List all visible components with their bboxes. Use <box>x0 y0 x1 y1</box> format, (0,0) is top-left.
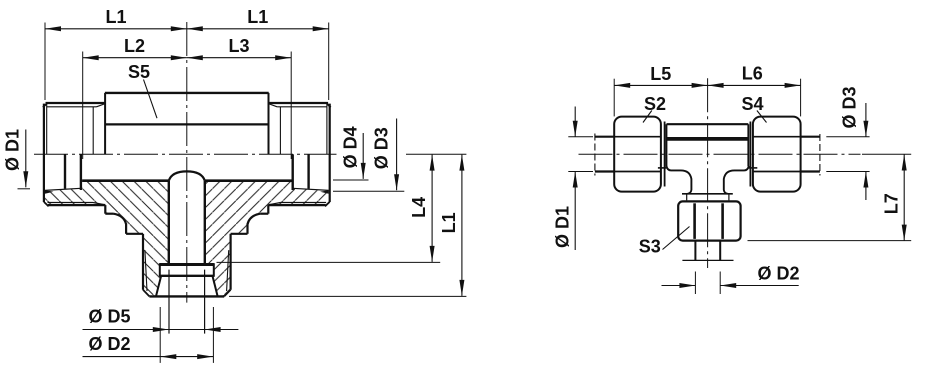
nut S3 left facet <box>693 203 696 239</box>
vertical bore wall left <box>168 181 170 264</box>
right stud thread crest bottom <box>268 204 325 206</box>
svg-text:L3: L3 <box>228 36 249 56</box>
flange step right vertical <box>267 205 269 214</box>
right tube break line <box>819 134 821 176</box>
standpipe washer top <box>682 193 733 195</box>
ferrule bottom edge <box>160 275 214 277</box>
left tube top wall <box>595 136 614 138</box>
svg-text:Ø D4: Ø D4 <box>340 126 360 168</box>
extension line L4 bottom <box>217 261 441 263</box>
left stud face inner edge <box>46 103 48 154</box>
dimension D1 line <box>25 130 27 188</box>
left port female thread line <box>45 188 81 190</box>
body ring right <box>749 122 751 187</box>
leader S3 <box>663 227 690 250</box>
tee body left edge <box>104 93 106 154</box>
left stud top chamfer <box>43 103 47 107</box>
left port countersink <box>45 190 54 194</box>
bore wall right segment <box>205 179 292 182</box>
left view vertical centreline <box>186 22 188 303</box>
ferrule top edge <box>160 263 214 266</box>
svg-text:Ø D3: Ø D3 <box>371 127 391 169</box>
svg-text:L1: L1 <box>439 212 459 233</box>
branch chamfer right <box>224 290 230 297</box>
tee body hex top edge <box>105 92 269 94</box>
left view horizontal centreline <box>34 153 337 155</box>
right port countersink <box>320 190 329 194</box>
extension line D3 <box>333 190 404 192</box>
svg-text:L5: L5 <box>650 64 671 84</box>
extension line L2 <box>82 52 84 160</box>
svg-text:Ø D5: Ø D5 <box>89 307 131 327</box>
branch bottom face <box>149 295 224 297</box>
branch stud left edge <box>142 234 144 290</box>
extension line D1 bottom right view <box>568 171 593 173</box>
standpipe washer left <box>686 194 688 201</box>
svg-text:Ø D1: Ø D1 <box>2 129 22 171</box>
right port female thread line <box>293 188 329 190</box>
right stud thread runout bottom <box>268 202 280 204</box>
dimension L3 <box>187 57 291 59</box>
right stud thread root top <box>277 106 327 108</box>
right stud thread root bottom <box>281 201 327 203</box>
extension line L6 right <box>800 79 802 117</box>
right stud thread runout top <box>268 104 277 107</box>
extension line D4 <box>333 179 369 181</box>
ferrule left edge <box>159 263 161 277</box>
step left horizontal <box>126 233 143 235</box>
right tube bottom wall <box>801 170 820 172</box>
section hatching left half <box>45 181 169 296</box>
left port cone shoulder edge <box>80 154 82 190</box>
left tube bottom wall <box>595 170 614 172</box>
extension line L1 bottom <box>229 295 466 297</box>
ogee fillet left <box>114 214 127 225</box>
tube wall right <box>204 270 206 334</box>
right stud bottom chamfer <box>325 202 330 206</box>
nut S4 outline <box>753 117 801 192</box>
svg-text:L7: L7 <box>881 193 901 214</box>
branch stud right edge <box>230 234 232 290</box>
dimension L1 right <box>187 28 329 30</box>
leader S2 <box>643 111 652 123</box>
standpipe washer right <box>728 194 730 201</box>
right stud thread end line <box>279 107 281 154</box>
extension line D2 left right view <box>694 272 696 295</box>
bottom tube left wall <box>694 241 696 261</box>
left stud thread root top <box>47 106 97 108</box>
dimension D3 line <box>396 119 398 191</box>
dimension L1 vertical line <box>461 155 463 296</box>
step right horizontal <box>231 233 248 235</box>
left port thread depth edge <box>64 154 66 189</box>
extension line D2 right right view <box>719 272 721 295</box>
body underside left <box>658 167 666 169</box>
right port cone shoulder edge <box>292 154 294 190</box>
left stud thread end line <box>92 107 94 154</box>
nut S2 outline <box>614 117 661 192</box>
nut S2 upper facet <box>614 136 660 138</box>
dimension D5 <box>83 329 239 331</box>
dimension D3 right view <box>865 103 867 137</box>
nut S3 outline <box>678 201 740 240</box>
step left vertical <box>125 224 127 234</box>
branch thread root right <box>227 250 229 291</box>
right tube top wall <box>801 136 820 138</box>
right port thread depth edge <box>307 154 309 189</box>
branch thread root left <box>145 250 147 291</box>
leader S4 <box>757 111 767 123</box>
flange step right horizontal <box>260 213 268 215</box>
left stud thread runout bottom <box>93 202 105 204</box>
flange step left vertical <box>104 205 106 214</box>
body right edge right view <box>747 124 749 166</box>
flange step left horizontal <box>105 213 113 215</box>
seat cone right <box>213 277 218 296</box>
leader S5 <box>144 80 158 119</box>
svg-text:L1: L1 <box>247 7 268 27</box>
right stud face outer edge <box>329 104 331 202</box>
dimension L4 line <box>431 155 433 262</box>
dimension L7 <box>903 155 905 241</box>
dimension L2 <box>83 57 187 59</box>
extension line D2 left <box>159 307 161 363</box>
extension line D3 bottom right view <box>826 171 869 173</box>
dimension L5 <box>614 84 707 86</box>
svg-text:L1: L1 <box>105 7 126 27</box>
nut S3 right facet <box>721 203 724 239</box>
seat cone left <box>156 277 161 296</box>
body hex band <box>667 137 748 141</box>
dimension D4 line <box>362 133 364 179</box>
vertical bore wall right <box>204 181 206 264</box>
left stud thread runout top <box>97 104 106 107</box>
step right vertical <box>246 224 248 234</box>
svg-text:L2: L2 <box>124 36 145 56</box>
left stud bottom chamfer <box>44 202 49 206</box>
svg-text:Ø D3: Ø D3 <box>839 86 859 128</box>
left stud face outer edge <box>43 104 45 202</box>
extension line centre axis right <box>406 153 466 155</box>
tee body right edge <box>268 93 270 154</box>
bottom tube right wall <box>719 241 721 261</box>
branch chamfer left <box>143 290 149 297</box>
extension line D1 top right view <box>568 136 593 138</box>
ogee fillet right <box>248 214 261 225</box>
body left edge right view <box>666 124 668 166</box>
svg-text:S3: S3 <box>639 237 661 257</box>
body top edge right view <box>667 123 749 125</box>
right stud top chamfer <box>326 103 330 107</box>
extension line L7 bottom <box>748 240 912 242</box>
right stud face inner edge <box>326 103 328 154</box>
nut S2 lower facet <box>614 171 660 173</box>
extension line stud right face <box>328 23 330 101</box>
drill dome <box>169 171 205 180</box>
left stud thread crest top <box>46 102 106 104</box>
svg-text:L4: L4 <box>409 197 429 218</box>
dimension L1 left <box>45 28 187 30</box>
svg-text:S5: S5 <box>128 62 150 82</box>
body ring left <box>664 122 666 187</box>
right view horizontal centreline <box>579 153 861 155</box>
nut S4 upper facet <box>753 136 800 138</box>
extension line D2 right <box>212 307 214 363</box>
extension line D3 top right view <box>826 136 869 138</box>
right stud thread crest top <box>268 102 328 104</box>
body underside right <box>749 167 757 169</box>
right view vertical centreline <box>707 78 709 268</box>
left stud thread crest bottom <box>48 204 105 206</box>
extension line D1 <box>18 188 31 190</box>
bottom tube end line <box>682 259 733 261</box>
left stud thread root bottom <box>48 201 94 203</box>
tee body hex facet line <box>105 123 268 125</box>
svg-text:L6: L6 <box>742 63 763 83</box>
nut S4 lower facet <box>753 171 800 173</box>
svg-text:Ø D1: Ø D1 <box>552 206 572 248</box>
tube wall left <box>168 270 170 334</box>
extension line L7 top <box>862 153 911 155</box>
extension line stud left face <box>44 23 46 101</box>
extension line L3 <box>290 52 292 160</box>
dimension D1 right view <box>574 107 576 137</box>
dimension D2 left view <box>83 356 214 358</box>
dimension L6 <box>708 84 801 86</box>
ferrule right edge <box>213 263 215 277</box>
svg-text:S2: S2 <box>644 94 666 114</box>
svg-text:Ø D2: Ø D2 <box>758 263 800 283</box>
bore wall left segment <box>82 179 169 182</box>
dimension D2 right view <box>662 285 696 287</box>
svg-text:S4: S4 <box>741 94 763 114</box>
left tube break line <box>594 134 596 176</box>
extension line L5 left <box>613 79 615 117</box>
section hatching right half <box>205 181 329 296</box>
svg-text:Ø D2: Ø D2 <box>89 334 131 354</box>
